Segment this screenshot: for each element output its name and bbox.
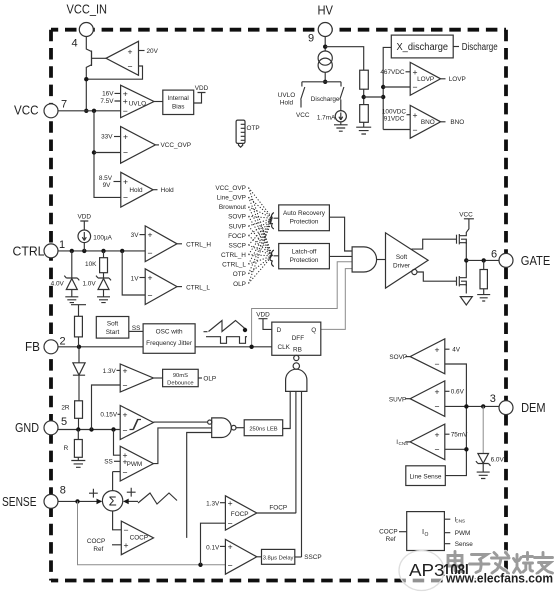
svg-text:2R: 2R [61, 405, 70, 412]
svg-text:VDD: VDD [256, 312, 270, 319]
svg-text:SSCP: SSCP [304, 554, 321, 561]
svg-text:−: − [123, 192, 128, 202]
svg-text:−: − [148, 248, 153, 258]
svg-text:−: − [123, 426, 128, 436]
svg-text:90mS: 90mS [173, 373, 188, 379]
svg-text:3V: 3V [131, 232, 140, 239]
svg-text:Protection: Protection [290, 219, 319, 226]
svg-text:VCC: VCC [459, 212, 473, 219]
svg-text:−: − [128, 62, 133, 72]
svg-text:3.8µs Delay: 3.8µs Delay [263, 555, 294, 561]
svg-text:Debounce: Debounce [167, 380, 193, 386]
svg-text:COCP: COCP [130, 534, 148, 541]
svg-text:CNS: CNS [399, 441, 409, 446]
svg-text:CTRL_L: CTRL_L [186, 285, 210, 292]
svg-text:FOCP: FOCP [231, 511, 249, 518]
svg-text:+: + [148, 230, 153, 240]
svg-text:CTRL: CTRL [13, 244, 45, 258]
svg-text:−: − [228, 518, 233, 528]
svg-text:CTRL_H: CTRL_H [221, 252, 246, 259]
svg-text:+: + [123, 132, 128, 142]
svg-text:100VDC: 100VDC [382, 108, 407, 115]
svg-text:LOVP: LOVP [449, 76, 466, 83]
svg-text:9V: 9V [103, 182, 112, 189]
svg-text:CNS: CNS [455, 518, 465, 523]
svg-text:Soft: Soft [396, 254, 408, 261]
svg-text:VCC: VCC [14, 104, 39, 118]
svg-text:Hold: Hold [161, 187, 175, 194]
svg-text:+: + [435, 386, 440, 396]
svg-text:1.0V: 1.0V [82, 281, 96, 288]
svg-text:100µA: 100µA [93, 234, 112, 241]
svg-text:−: − [124, 525, 129, 535]
svg-text:SUVP: SUVP [389, 397, 406, 404]
svg-text:Frequency Jitter: Frequency Jitter [146, 340, 193, 347]
svg-text:AP3: AP3 [409, 560, 445, 580]
svg-text:3: 3 [490, 393, 496, 405]
svg-text:1.3V: 1.3V [206, 501, 220, 508]
svg-text:1: 1 [59, 239, 65, 251]
svg-text:FB: FB [25, 340, 40, 354]
svg-text:LOVP: LOVP [417, 76, 434, 83]
svg-text:Line Sense: Line Sense [410, 474, 442, 481]
svg-text:GATE: GATE [521, 254, 551, 268]
svg-text:+: + [124, 540, 129, 550]
svg-text:COCP: COCP [379, 528, 397, 535]
svg-text:Protection: Protection [290, 257, 319, 264]
svg-text:OTP: OTP [233, 271, 246, 278]
svg-text:Σ: Σ [109, 494, 117, 509]
svg-text:VCC_IN: VCC_IN [67, 3, 108, 17]
svg-text:−: − [435, 445, 440, 455]
svg-text:Hold: Hold [129, 187, 143, 194]
svg-text:SS: SS [132, 325, 141, 332]
svg-text:−: − [413, 125, 418, 135]
svg-text:OTP: OTP [247, 125, 260, 132]
svg-text:X_discharge: X_discharge [397, 42, 449, 53]
svg-text:1.7mA: 1.7mA [317, 114, 336, 121]
svg-text:2: 2 [60, 335, 66, 347]
svg-text:R: R [64, 445, 69, 452]
svg-text:COCP: COCP [87, 538, 105, 545]
svg-text:−: − [123, 148, 128, 158]
svg-text:Auto Recovery: Auto Recovery [283, 210, 326, 217]
svg-text:+: + [435, 430, 440, 440]
svg-text:4V: 4V [452, 347, 461, 354]
svg-text:O: O [425, 532, 429, 538]
svg-text:VDD: VDD [78, 214, 92, 221]
svg-text:+: + [123, 366, 128, 376]
svg-text:CLK: CLK [278, 344, 291, 351]
svg-text:VDD: VDD [195, 85, 209, 92]
svg-text:−: − [413, 82, 418, 92]
svg-text:SSCP: SSCP [228, 243, 245, 250]
svg-text:DEM: DEM [521, 401, 546, 415]
svg-text:Line_OVP: Line_OVP [217, 195, 246, 202]
svg-text:7.5V: 7.5V [100, 98, 114, 105]
svg-text:SUVP: SUVP [228, 223, 245, 230]
svg-text:0.6V: 0.6V [451, 389, 465, 396]
svg-text:+: + [128, 47, 133, 57]
svg-text:250ns LEB: 250ns LEB [249, 426, 277, 432]
svg-text:Brownout: Brownout [219, 204, 246, 211]
svg-text:6.0V: 6.0V [491, 457, 505, 464]
svg-text:PWM: PWM [127, 461, 143, 468]
svg-text:−: − [435, 402, 440, 412]
svg-text:RB: RB [293, 346, 302, 353]
svg-text:Latch-off: Latch-off [292, 249, 317, 256]
svg-text:+: + [123, 96, 128, 106]
svg-text:91VDC: 91VDC [384, 115, 405, 122]
svg-text:DFF: DFF [292, 335, 305, 342]
svg-text:Start: Start [106, 329, 120, 336]
svg-text:GND: GND [15, 421, 39, 435]
svg-text:Soft: Soft [107, 320, 119, 327]
svg-text:8: 8 [60, 484, 66, 496]
svg-text:−: − [123, 106, 128, 116]
svg-text:16V: 16V [102, 91, 114, 98]
svg-text:VCC_OVP: VCC_OVP [161, 142, 192, 149]
svg-text:VCC_OVP: VCC_OVP [215, 185, 246, 192]
svg-text:+: + [148, 273, 153, 283]
svg-text:OLP: OLP [233, 281, 246, 288]
svg-text:20V: 20V [147, 48, 159, 55]
svg-text:0.1V: 0.1V [206, 544, 220, 551]
svg-text:VCC: VCC [296, 112, 310, 119]
svg-text:OSC with: OSC with [156, 329, 183, 336]
svg-text:−: − [123, 380, 128, 390]
svg-text:75mV: 75mV [451, 432, 468, 439]
svg-text:4.0V: 4.0V [51, 281, 65, 288]
svg-text:BNO: BNO [421, 119, 435, 126]
svg-text:8.5V: 8.5V [99, 175, 113, 182]
svg-text:FOCP: FOCP [228, 233, 246, 240]
svg-text:+: + [228, 498, 233, 508]
svg-text:−: − [228, 561, 233, 571]
svg-text:Q: Q [311, 327, 316, 334]
svg-text:BNO: BNO [450, 119, 464, 126]
svg-text:SOVP: SOVP [389, 354, 407, 361]
svg-text:4: 4 [72, 38, 78, 50]
svg-text:SS: SS [104, 458, 113, 465]
svg-text:+: + [413, 110, 418, 120]
svg-text:Sense: Sense [455, 541, 474, 548]
svg-text:www.elecfans.com: www.elecfans.com [445, 572, 553, 586]
svg-text:0.15V: 0.15V [100, 411, 117, 418]
svg-text:SOVP: SOVP [228, 214, 246, 221]
svg-text:CTRL_L: CTRL_L [222, 262, 246, 269]
svg-text:1.3V: 1.3V [103, 368, 117, 375]
svg-text:6: 6 [491, 249, 497, 261]
svg-text:PWM: PWM [455, 530, 471, 537]
svg-text:5: 5 [61, 416, 67, 428]
svg-text:Bias: Bias [172, 104, 184, 111]
svg-text:Ref: Ref [93, 546, 103, 553]
svg-text:D: D [277, 327, 282, 334]
svg-text:+: + [123, 177, 128, 187]
svg-text:−: − [123, 467, 128, 477]
svg-text:+: + [123, 409, 128, 419]
svg-text:HV: HV [318, 4, 334, 18]
svg-text:Internal: Internal [168, 95, 189, 102]
svg-text:1V: 1V [131, 275, 140, 282]
svg-text:UVLO: UVLO [278, 92, 295, 99]
svg-text:Ref: Ref [386, 536, 396, 543]
svg-text:467VDC: 467VDC [380, 69, 405, 76]
svg-text:Discharge: Discharge [462, 42, 498, 53]
svg-text:−: − [435, 359, 440, 369]
svg-text:7: 7 [61, 99, 67, 111]
svg-text:9: 9 [308, 33, 314, 45]
svg-text:SENSE: SENSE [2, 495, 37, 509]
svg-text:UVLO: UVLO [129, 100, 146, 107]
svg-text:33V: 33V [101, 134, 113, 141]
svg-text:+: + [435, 344, 440, 354]
svg-text:10K: 10K [85, 261, 97, 268]
svg-text:−: − [148, 291, 153, 301]
svg-text:Driver: Driver [393, 263, 411, 270]
svg-text:FOCP: FOCP [269, 504, 287, 511]
svg-text:Hold: Hold [280, 100, 294, 107]
svg-text:Discharge: Discharge [311, 96, 340, 103]
svg-text:CTRL_H: CTRL_H [186, 242, 211, 249]
svg-text:+: + [228, 542, 233, 552]
svg-text:OLP: OLP [203, 376, 216, 383]
